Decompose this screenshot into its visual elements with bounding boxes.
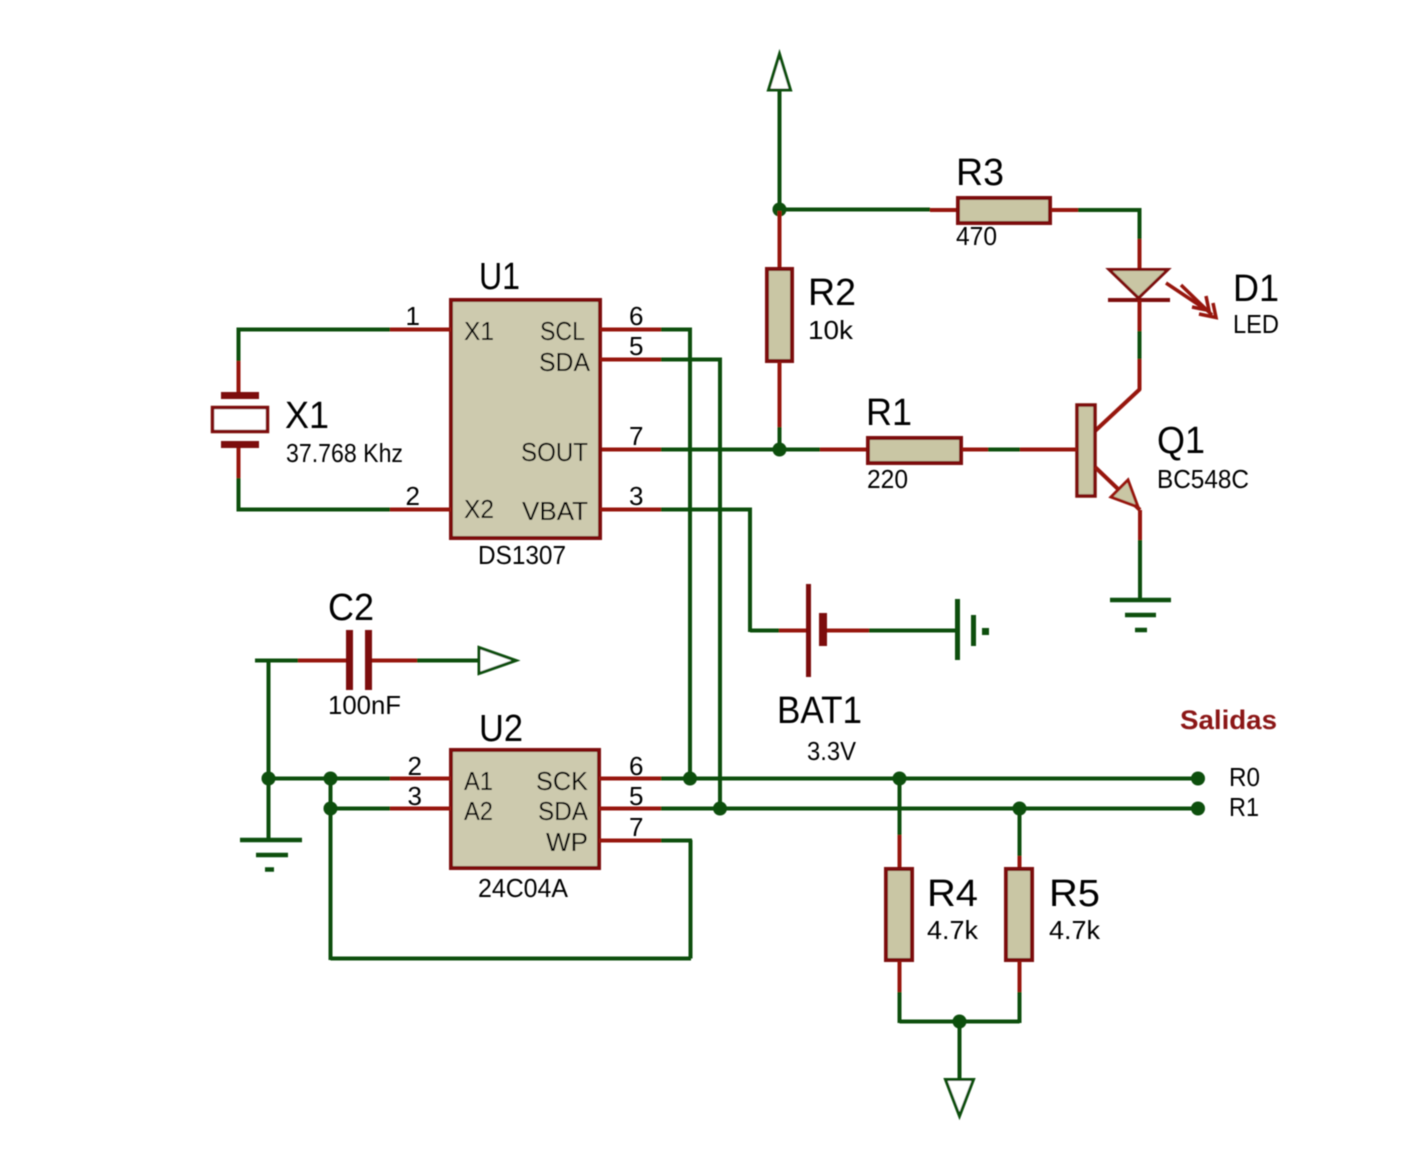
terminal R0 bbox=[1191, 772, 1205, 786]
node junction SOUT / R2 / R1 bbox=[773, 443, 787, 457]
svg-text:X2: X2 bbox=[464, 494, 494, 524]
svg-text:220: 220 bbox=[867, 464, 908, 494]
wire junction to R3 bbox=[780, 208, 958, 213]
svg-text:Q1: Q1 bbox=[1157, 420, 1205, 462]
wire C2 to ground bbox=[267, 661, 271, 840]
crystal X1 bbox=[213, 361, 268, 478]
node junction A1 line bbox=[324, 772, 338, 786]
node junction ground / R0 line bbox=[262, 772, 276, 786]
node junction A2 line bbox=[324, 802, 338, 816]
net R0 line bbox=[599, 777, 1198, 781]
wire R4 R5 bottom bbox=[900, 1022, 1020, 1080]
svg-text:3: 3 bbox=[629, 481, 643, 511]
node junction R4/R5 bbox=[953, 1015, 967, 1029]
svg-text:DS1307: DS1307 bbox=[478, 540, 566, 570]
svg-text:10k: 10k bbox=[808, 315, 854, 345]
svg-text:VBAT: VBAT bbox=[522, 496, 588, 526]
ground arrow bottom bbox=[946, 1080, 974, 1117]
svg-text:R5: R5 bbox=[1049, 873, 1100, 915]
svg-text:6: 6 bbox=[629, 301, 643, 331]
wire U1 pin2 bbox=[238, 508, 451, 512]
svg-text:Salidas: Salidas bbox=[1180, 705, 1277, 735]
IC U1 DS1307 bbox=[451, 300, 600, 538]
resistor R2 bbox=[767, 211, 792, 447]
IC U2 24C04A bbox=[451, 750, 599, 868]
svg-text:U1: U1 bbox=[479, 256, 520, 298]
wire U1 VBAT to battery bbox=[600, 508, 806, 633]
svg-text:BC548C: BC548C bbox=[1157, 464, 1249, 494]
capacitor C2 bbox=[255, 630, 478, 690]
svg-text:5: 5 bbox=[629, 331, 643, 361]
svg-text:24C04A: 24C04A bbox=[478, 873, 569, 903]
svg-text:X1: X1 bbox=[285, 395, 329, 437]
wire U2 pin A2 bbox=[330, 807, 451, 811]
svg-text:A2: A2 bbox=[464, 796, 493, 826]
svg-text:X1: X1 bbox=[464, 316, 494, 346]
svg-text:7: 7 bbox=[629, 421, 643, 451]
resistor R5 bbox=[1006, 809, 1032, 1024]
svg-text:SCL: SCL bbox=[540, 316, 585, 346]
node junction SCL bus / R0 bbox=[683, 772, 697, 786]
LED D1 bbox=[1108, 270, 1216, 318]
transistor Q1 bbox=[1077, 389, 1140, 510]
svg-text:SDA: SDA bbox=[539, 347, 591, 377]
svg-text:4.7k: 4.7k bbox=[1049, 915, 1101, 945]
wire U2 pin A1 bbox=[268, 777, 451, 781]
svg-text:3.3V: 3.3V bbox=[807, 736, 857, 766]
svg-text:LED: LED bbox=[1233, 309, 1279, 339]
svg-text:R1: R1 bbox=[1229, 792, 1259, 822]
svg-text:7: 7 bbox=[629, 812, 643, 842]
svg-text:R3: R3 bbox=[956, 152, 1004, 194]
resistor R1 bbox=[868, 438, 961, 463]
wire U1 SCL to bus bbox=[600, 328, 692, 780]
node junction at R2 top bbox=[773, 203, 787, 217]
svg-text:R1: R1 bbox=[866, 392, 912, 434]
svg-text:1: 1 bbox=[406, 301, 420, 331]
node junction R5 / R1 bbox=[1013, 802, 1027, 816]
svg-text:470: 470 bbox=[956, 221, 997, 251]
wire Q1 emitter to ground bbox=[1138, 510, 1142, 600]
resistor R3 bbox=[958, 198, 1050, 223]
svg-text:R4: R4 bbox=[927, 873, 978, 915]
ground symbol under Q1 bbox=[1110, 600, 1171, 630]
wire R1 to Q1 base bbox=[962, 448, 1077, 452]
wire U1 SDA to bus bbox=[600, 358, 722, 810]
svg-text:WP: WP bbox=[546, 827, 588, 857]
wire U1 pin1 bbox=[238, 328, 451, 332]
net R1 line bbox=[599, 807, 1198, 811]
svg-text:2: 2 bbox=[406, 481, 420, 511]
resistor R4 bbox=[886, 779, 912, 1024]
svg-text:C2: C2 bbox=[328, 587, 374, 629]
svg-text:4.7k: 4.7k bbox=[927, 915, 979, 945]
svg-text:100nF: 100nF bbox=[328, 690, 401, 720]
svg-text:SDA: SDA bbox=[538, 796, 589, 826]
wire A2 loop down bbox=[331, 779, 692, 961]
svg-text:37.768 Khz: 37.768 Khz bbox=[286, 438, 403, 468]
svg-text:SCK: SCK bbox=[536, 766, 589, 796]
wire SOUT to R1 bbox=[602, 448, 867, 452]
wire crystal top bbox=[237, 328, 241, 362]
svg-text:BAT1: BAT1 bbox=[777, 690, 862, 732]
svg-text:D1: D1 bbox=[1233, 268, 1279, 310]
wire crystal bottom bbox=[237, 478, 241, 512]
ground symbol left bbox=[240, 840, 302, 870]
terminal R1 bbox=[1191, 802, 1205, 816]
power symbol VCC arrow bbox=[769, 54, 791, 209]
arrow terminal after C2 bbox=[479, 648, 516, 674]
svg-text:R0: R0 bbox=[1229, 762, 1260, 792]
battery BAT1 bbox=[809, 584, 990, 677]
node junction SDA bus / R1 bbox=[713, 802, 727, 816]
svg-text:U2: U2 bbox=[479, 708, 523, 750]
wire R3 to LED bbox=[1051, 208, 1141, 270]
svg-text:R2: R2 bbox=[808, 272, 856, 314]
wire LED cathode to Q1 collector bbox=[1138, 300, 1142, 390]
wire U2 WP bbox=[599, 839, 692, 843]
svg-text:SOUT: SOUT bbox=[521, 437, 588, 467]
svg-text:A1: A1 bbox=[464, 766, 493, 796]
node junction R4 / R0 bbox=[893, 772, 907, 786]
